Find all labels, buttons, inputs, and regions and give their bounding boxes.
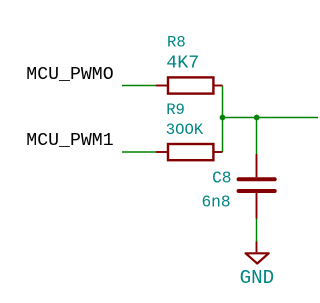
wire node A to right edge [223, 117, 319, 119]
capacitor C8 [239, 154, 275, 219]
resistor R8 [156, 77, 223, 93]
wire node B down to C8 [256, 118, 258, 155]
svg-text:MCU_PWMO: MCU_PWMO [26, 65, 113, 85]
svg-text:R8: R8 [167, 33, 186, 51]
svg-text:R9: R9 [166, 101, 185, 119]
resistor R9 [156, 144, 223, 160]
svg-text:C8: C8 [212, 170, 231, 188]
wire C8 to GND symbol [256, 219, 258, 242]
wire R9 pin2 up to node A [222, 118, 224, 153]
ground [246, 242, 269, 264]
svg-text:4K7: 4K7 [166, 53, 199, 74]
svg-text:6n8: 6n8 [201, 194, 230, 212]
wire MCU_PWM1 to R9 pin1 [122, 151, 156, 153]
wire MCU_PWM0 to R8 pin1 [122, 85, 156, 87]
node B junction [254, 115, 260, 121]
node A junction [220, 115, 226, 121]
svg-text:3OOK: 3OOK [166, 121, 204, 139]
svg-text:MCU_PWM1: MCU_PWM1 [26, 131, 113, 151]
svg-text:GND: GND [240, 267, 275, 289]
wire R8 pin2 down to node A [222, 86, 224, 118]
